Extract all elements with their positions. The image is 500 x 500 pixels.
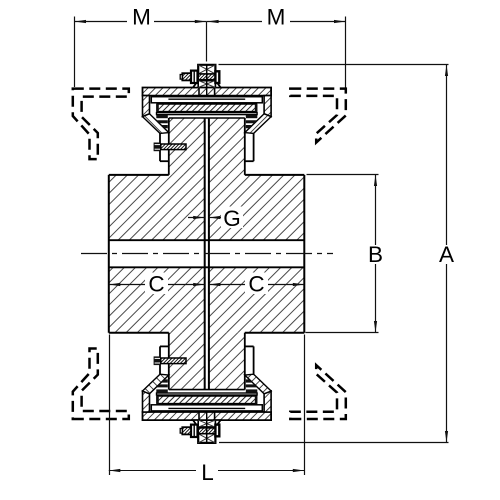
svg-text:M: M <box>132 5 151 30</box>
svg-text:C: C <box>148 272 164 297</box>
svg-text:G: G <box>223 206 241 231</box>
svg-text:A: A <box>439 242 454 267</box>
svg-text:L: L <box>201 460 214 485</box>
svg-text:C: C <box>248 272 264 297</box>
svg-text:B: B <box>368 242 383 267</box>
svg-text:M: M <box>267 5 286 30</box>
